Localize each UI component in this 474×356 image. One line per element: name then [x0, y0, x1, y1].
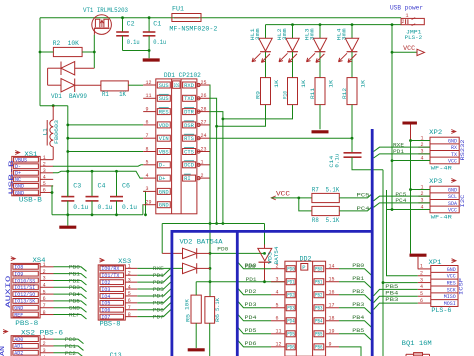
svg-text:11: 11 [276, 328, 282, 334]
svg-text:6: 6 [43, 296, 46, 302]
svg-text:7: 7 [43, 303, 46, 309]
svg-text:GND: GND [15, 184, 24, 190]
svg-text:R9: R9 [256, 91, 262, 99]
svg-text:DD2: DD2 [300, 255, 312, 262]
svg-text:AD2: AD2 [14, 351, 23, 356]
svg-text:PD2: PD2 [153, 280, 164, 286]
svg-text:16: 16 [329, 289, 335, 295]
svg-text:3: 3 [146, 186, 149, 192]
svg-text:TXD: TXD [184, 96, 194, 102]
svg-text:PBS-8: PBS-8 [100, 321, 121, 328]
svg-text:PD4: PD4 [245, 315, 257, 321]
svg-text:3mm: 3mm [255, 28, 261, 40]
svg-text:2: 2 [402, 19, 405, 25]
svg-text:PB0: PB0 [352, 263, 364, 269]
svg-text:PB6: PB6 [315, 345, 323, 351]
svg-text:PB4: PB4 [315, 319, 323, 325]
svg-text:2: 2 [128, 270, 131, 276]
svg-text:PC5: PC5 [395, 192, 406, 198]
svg-text:XS3: XS3 [118, 258, 131, 265]
svg-text:XP2: XP2 [429, 129, 442, 136]
svg-text:USB-B: USB-B [8, 160, 15, 195]
svg-text:PB0: PB0 [69, 265, 80, 271]
svg-text:5: 5 [43, 289, 46, 295]
svg-text:REF: REF [14, 312, 23, 318]
svg-text:C13: C13 [110, 352, 122, 356]
svg-text:REF: REF [69, 312, 80, 318]
svg-text:PD7: PD7 [153, 314, 164, 320]
svg-text:IO5: IO5 [101, 301, 110, 307]
svg-text:D+: D+ [15, 171, 21, 177]
svg-text:3: 3 [43, 276, 46, 282]
svg-text:BAT54: BAT54 [274, 247, 280, 265]
svg-text:XP3: XP3 [429, 178, 442, 185]
svg-text:GND: GND [69, 306, 80, 312]
svg-text:VCC: VCC [403, 45, 415, 52]
svg-text:PD1: PD1 [246, 277, 257, 283]
svg-text:1K: 1K [274, 80, 280, 88]
svg-text:PB4: PB4 [69, 292, 80, 298]
svg-text:10K: 10K [185, 299, 191, 310]
svg-text:R5: R5 [186, 314, 192, 322]
svg-text:7: 7 [128, 305, 131, 311]
svg-text:I2C: I2C [459, 194, 466, 208]
svg-text:GND: GND [159, 189, 169, 195]
svg-text:8: 8 [43, 310, 46, 316]
svg-text:4: 4 [43, 282, 46, 288]
svg-text:1: 1 [201, 160, 204, 166]
svg-text:RTS: RTS [184, 136, 194, 142]
svg-text:VT1 IRLML5203: VT1 IRLML5203 [83, 7, 128, 14]
svg-text:6: 6 [420, 298, 423, 304]
svg-text:0.1u: 0.1u [127, 39, 140, 46]
svg-text:NC: NC [15, 177, 21, 183]
svg-text:IO9: IO9 [14, 271, 23, 277]
svg-text:PC1: PC1 [65, 344, 76, 350]
svg-text:PB3: PB3 [69, 285, 80, 291]
svg-text:PD0: PD0 [217, 246, 228, 252]
svg-text:5: 5 [128, 291, 131, 297]
svg-text:1K: 1K [328, 80, 334, 88]
svg-text:9: 9 [329, 341, 332, 347]
svg-text:IO0/RX: IO0/RX [101, 266, 119, 272]
svg-text:PD1: PD1 [153, 273, 164, 279]
svg-text:PLS-2: PLS-2 [405, 34, 423, 41]
svg-text:PD0: PD0 [245, 263, 257, 269]
svg-text:AD1: AD1 [14, 344, 23, 350]
svg-text:3: 3 [276, 276, 279, 282]
svg-text:IO1/TX: IO1/TX [101, 273, 119, 279]
svg-text:BQ1 16M: BQ1 16M [402, 340, 432, 347]
svg-text:AD0: AD0 [14, 337, 23, 343]
svg-text:VCC: VCC [276, 190, 291, 197]
svg-text:R1 1K: R1 1K [102, 91, 126, 98]
svg-text:R7 5.1K: R7 5.1K [312, 187, 340, 194]
svg-text:IO3: IO3 [101, 287, 110, 293]
svg-text:VD1 BAV99: VD1 BAV99 [51, 93, 87, 100]
svg-text:PB5: PB5 [352, 328, 364, 334]
svg-text:XS4: XS4 [33, 257, 46, 264]
svg-text:27: 27 [201, 120, 207, 126]
svg-text:5.1K: 5.1K [215, 298, 221, 311]
svg-text:RXE: RXE [153, 266, 164, 272]
svg-text:3: 3 [128, 277, 131, 283]
svg-text:PD6: PD6 [153, 307, 164, 313]
svg-text:3mm: 3mm [342, 28, 348, 40]
svg-text:XP1: XP1 [429, 259, 442, 266]
svg-text:PD1: PD1 [287, 280, 295, 286]
svg-text:PC2: PC2 [65, 351, 76, 356]
svg-text:PBS-8: PBS-8 [15, 320, 38, 327]
svg-text:12: 12 [276, 341, 282, 347]
svg-text:2: 2 [276, 263, 279, 269]
svg-text:1: 1 [420, 264, 423, 270]
svg-text:PB1: PB1 [352, 276, 364, 282]
svg-text:VD3: VD3 [267, 252, 273, 264]
svg-text:5: 5 [420, 291, 423, 297]
svg-text:VBS: VBS [159, 149, 169, 155]
svg-text:VCC: VCC [448, 158, 457, 164]
svg-text:VD2 BAT54A: VD2 BAT54A [180, 239, 223, 246]
svg-text:MF-NSMF020-2: MF-NSMF020-2 [169, 25, 217, 32]
svg-text:C3: C3 [73, 182, 81, 189]
svg-text:19: 19 [329, 328, 335, 334]
svg-text:15: 15 [329, 276, 335, 282]
svg-text:8: 8 [128, 312, 131, 318]
svg-text:RES: RES [159, 110, 169, 116]
svg-text:P: P [302, 265, 305, 271]
svg-text:D-: D- [159, 163, 166, 169]
svg-text:PB2: PB2 [352, 289, 364, 295]
svg-text:4: 4 [43, 175, 46, 181]
svg-text:2: 2 [43, 161, 46, 167]
svg-text:R11: R11 [310, 88, 316, 99]
svg-text:3: 3 [420, 277, 423, 283]
svg-text:PD1: PD1 [393, 149, 404, 155]
svg-text:3mm: 3mm [310, 28, 316, 40]
svg-text:5: 5 [276, 302, 279, 308]
svg-text:D+: D+ [159, 176, 166, 182]
svg-text:USB-B: USB-B [19, 197, 42, 204]
svg-text:FB0603: FB0603 [54, 120, 60, 144]
svg-text:28: 28 [201, 106, 207, 112]
svg-text:SUS: SUS [159, 96, 169, 102]
svg-text:PB3: PB3 [352, 302, 364, 308]
svg-text:IO10/SS: IO10/SS [14, 278, 35, 284]
svg-text:PC0: PC0 [65, 337, 76, 343]
svg-text:XS2 PBS-6: XS2 PBS-6 [21, 329, 63, 336]
svg-text:24: 24 [201, 133, 207, 139]
svg-text:VCC: VCC [448, 207, 457, 213]
svg-text:IOS: IOS [174, 83, 180, 89]
svg-text:WF-4R: WF-4R [431, 165, 453, 172]
svg-text:PD4: PD4 [287, 319, 295, 325]
svg-text:ICSP: ICSP [458, 277, 465, 295]
svg-text:USB power: USB power [390, 5, 423, 12]
svg-text:PC4: PC4 [357, 206, 370, 212]
svg-text:RI: RI [184, 176, 191, 182]
svg-text:PB2: PB2 [315, 293, 323, 299]
svg-text:0.1u: 0.1u [153, 39, 166, 46]
svg-text:PB2: PB2 [69, 278, 80, 284]
svg-text:C2: C2 [127, 21, 135, 28]
svg-text:FU1: FU1 [172, 6, 184, 13]
svg-text:PD3: PD3 [153, 287, 164, 293]
svg-text:9: 9 [146, 106, 149, 112]
svg-text:5: 5 [146, 160, 149, 166]
svg-text:11: 11 [146, 93, 152, 99]
svg-text:R6: R6 [215, 314, 221, 322]
svg-text:GND: GND [159, 203, 169, 209]
svg-text:1: 1 [406, 13, 409, 19]
svg-text:PD5: PD5 [153, 301, 164, 307]
svg-text:6: 6 [276, 315, 279, 321]
svg-text:IO2: IO2 [101, 280, 110, 286]
svg-text:0.1u: 0.1u [73, 204, 88, 211]
svg-text:GND: GND [14, 306, 23, 312]
svg-text:CTS: CTS [184, 149, 194, 155]
svg-text:PD3: PD3 [287, 306, 295, 312]
svg-text:PD5: PD5 [287, 332, 295, 338]
svg-text:PD2: PD2 [287, 293, 295, 299]
svg-text:29: 29 [146, 200, 152, 206]
svg-text:D-: D- [15, 164, 21, 170]
svg-text:WF-4R: WF-4R [431, 214, 453, 221]
svg-text:DCD: DCD [184, 163, 194, 169]
svg-text:IO4: IO4 [101, 294, 110, 300]
svg-text:PB3: PB3 [315, 306, 323, 312]
svg-text:DSR: DSR [184, 123, 194, 129]
svg-text:IO6: IO6 [101, 308, 110, 314]
svg-text:2: 2 [43, 269, 46, 275]
svg-text:PD0: PD0 [287, 267, 295, 273]
svg-text:PLS-6: PLS-6 [431, 307, 451, 314]
svg-text:5: 5 [43, 181, 46, 187]
svg-text:1: 1 [43, 155, 46, 161]
svg-text:7: 7 [146, 133, 149, 139]
svg-text:4: 4 [420, 284, 423, 290]
svg-text:PD6: PD6 [287, 345, 295, 351]
svg-text:17: 17 [329, 302, 335, 308]
svg-text:PB1: PB1 [315, 280, 323, 286]
svg-text:VBUS: VBUS [15, 157, 27, 163]
svg-text:12: 12 [146, 80, 152, 86]
svg-text:PB3: PB3 [385, 297, 398, 303]
svg-text:4: 4 [276, 289, 279, 295]
svg-text:R10: R10 [283, 91, 289, 99]
svg-text:PB5: PB5 [385, 284, 398, 290]
svg-text:8: 8 [146, 146, 149, 152]
svg-text:IO12/SO: IO12/SO [14, 292, 35, 298]
svg-text:1K: 1K [360, 80, 366, 88]
svg-text:2: 2 [420, 271, 423, 277]
svg-text:PB4: PB4 [385, 291, 398, 297]
svg-text:IO13/SK: IO13/SK [14, 299, 35, 305]
svg-text:18: 18 [329, 315, 335, 321]
svg-text:PD3: PD3 [245, 302, 257, 308]
svg-text:AUXIO: AUXIO [5, 275, 12, 308]
svg-text:PB1: PB1 [69, 271, 80, 277]
svg-text:PB5: PB5 [315, 332, 323, 338]
svg-text:DTR: DTR [184, 110, 194, 116]
svg-text:PD4: PD4 [153, 294, 164, 300]
svg-text:IO8: IO8 [14, 265, 23, 271]
svg-text:23: 23 [201, 146, 207, 152]
svg-text:PB5: PB5 [69, 299, 80, 305]
svg-text:PC5: PC5 [357, 193, 370, 199]
svg-text:RS232: RS232 [459, 140, 466, 161]
svg-text:VIN: VIN [159, 136, 169, 142]
svg-text:SUS: SUS [159, 83, 169, 89]
svg-text:R8 5.1K: R8 5.1K [312, 217, 340, 224]
svg-text:26: 26 [201, 93, 207, 99]
svg-text:RXE: RXE [393, 143, 404, 149]
svg-text:L1: L1 [42, 128, 48, 135]
svg-text:6: 6 [128, 298, 131, 304]
svg-text:0.1u: 0.1u [335, 154, 341, 168]
svg-text:PC4: PC4 [395, 198, 406, 204]
svg-text:PD6: PD6 [245, 341, 257, 347]
svg-text:25: 25 [201, 80, 207, 86]
svg-text:AN: AN [0, 346, 6, 356]
svg-text:R2 10K: R2 10K [53, 40, 79, 47]
svg-text:3mm: 3mm [282, 28, 288, 40]
svg-text:PB4: PB4 [352, 315, 364, 321]
svg-text:C6: C6 [122, 182, 130, 189]
svg-text:RXD: RXD [184, 83, 194, 89]
svg-text:6: 6 [146, 120, 149, 126]
svg-text:DD1 CP2102: DD1 CP2102 [164, 72, 201, 79]
svg-text:XS1: XS1 [24, 151, 37, 158]
svg-text:R12: R12 [342, 88, 348, 99]
svg-text:VDD: VDD [159, 123, 169, 129]
svg-text:PD5: PD5 [245, 328, 257, 334]
svg-text:3: 3 [43, 168, 46, 174]
svg-text:C1: C1 [153, 21, 161, 28]
svg-text:PD2: PD2 [245, 289, 257, 295]
svg-text:4: 4 [128, 284, 131, 290]
svg-text:2: 2 [43, 341, 46, 347]
svg-text:3: 3 [43, 348, 46, 354]
svg-text:14: 14 [329, 263, 335, 269]
svg-text:PB0: PB0 [315, 267, 323, 273]
svg-text:IO11/SI: IO11/SI [14, 285, 35, 291]
svg-text:0.1u: 0.1u [122, 204, 137, 211]
svg-text:4: 4 [146, 173, 149, 179]
svg-text:6: 6 [43, 188, 46, 194]
svg-text:C4: C4 [98, 182, 106, 189]
svg-text:2: 2 [201, 173, 204, 179]
svg-text:1K: 1K [301, 80, 307, 88]
svg-text:0.1u: 0.1u [98, 204, 113, 211]
svg-text:GND: GND [15, 190, 24, 196]
